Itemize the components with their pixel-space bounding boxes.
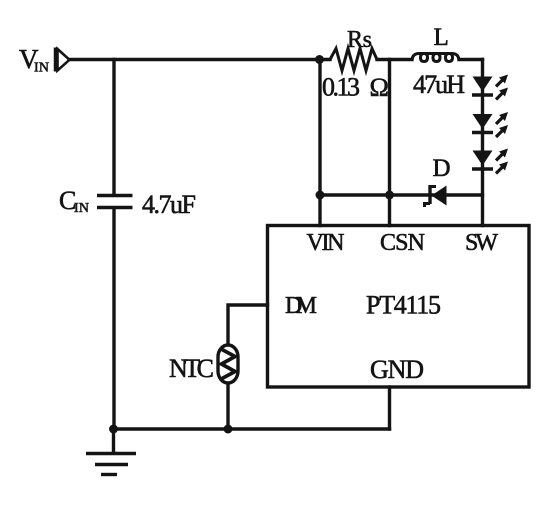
node A: rail to VIN branch junction [315, 55, 324, 64]
wire: freewheeling diode row [320, 193, 483, 196]
resistor Rs [330, 49, 377, 71]
inductor L [412, 54, 459, 62]
thermistor NTC [218, 345, 238, 383]
svg-text:D: D [433, 155, 451, 182]
svg-text:CSN: CSN [380, 230, 425, 256]
svg-text:DM: DM [285, 293, 317, 319]
svg-text:VIN: VIN [307, 230, 345, 256]
wire: CIN bottom lead [112, 209, 115, 429]
wire: VIN pin branch [318, 60, 321, 226]
wire: between resistor and inductor [377, 58, 412, 61]
LED D3 [472, 146, 511, 177]
wire: LED chain / SW vertical [481, 60, 484, 226]
wire: NTC bottom lead [226, 384, 229, 429]
svg-text:IN: IN [34, 61, 49, 76]
wire: DM pin lead [228, 305, 268, 344]
svg-text:PT4115: PT4115 [366, 291, 441, 320]
svg-text:NTC: NTC [169, 354, 214, 383]
wire: CSN pin branch [388, 60, 391, 226]
svg-text:47uH: 47uH [413, 70, 465, 99]
LED D1 [472, 72, 511, 103]
svg-text:L: L [434, 24, 449, 51]
schottky diode D [425, 185, 447, 207]
svg-text:Rs: Rs [347, 27, 372, 53]
wire: GND pin lead [388, 387, 391, 429]
ground symbol [86, 454, 136, 475]
wire: ground stub [112, 429, 115, 452]
svg-text:4.7uF: 4.7uF [142, 190, 196, 219]
capacitor CIN [97, 196, 133, 208]
svg-text:GND: GND [370, 355, 424, 384]
node B: VIN branch / diode row junction [316, 191, 325, 200]
input terminal VIN [56, 48, 70, 72]
svg-text:IN: IN [74, 201, 89, 216]
wire: CIN top lead [112, 60, 115, 195]
IC U1 PT4115 box [268, 226, 530, 388]
wire: ground rail [114, 427, 390, 430]
wire: inductor to LED chain corner [459, 58, 483, 61]
svg-text:0.13: 0.13 [322, 73, 360, 102]
LED D2 [472, 109, 511, 140]
node E: ground rail / NTC junction [224, 425, 233, 434]
wire: main top rail from VIN terminal to resistor [69, 58, 330, 61]
node D: ground rail / CIN junction [109, 425, 118, 434]
node C: CSN branch / diode row junction [385, 191, 394, 200]
svg-text:Ω: Ω [370, 73, 389, 102]
svg-text:SW: SW [465, 230, 498, 256]
